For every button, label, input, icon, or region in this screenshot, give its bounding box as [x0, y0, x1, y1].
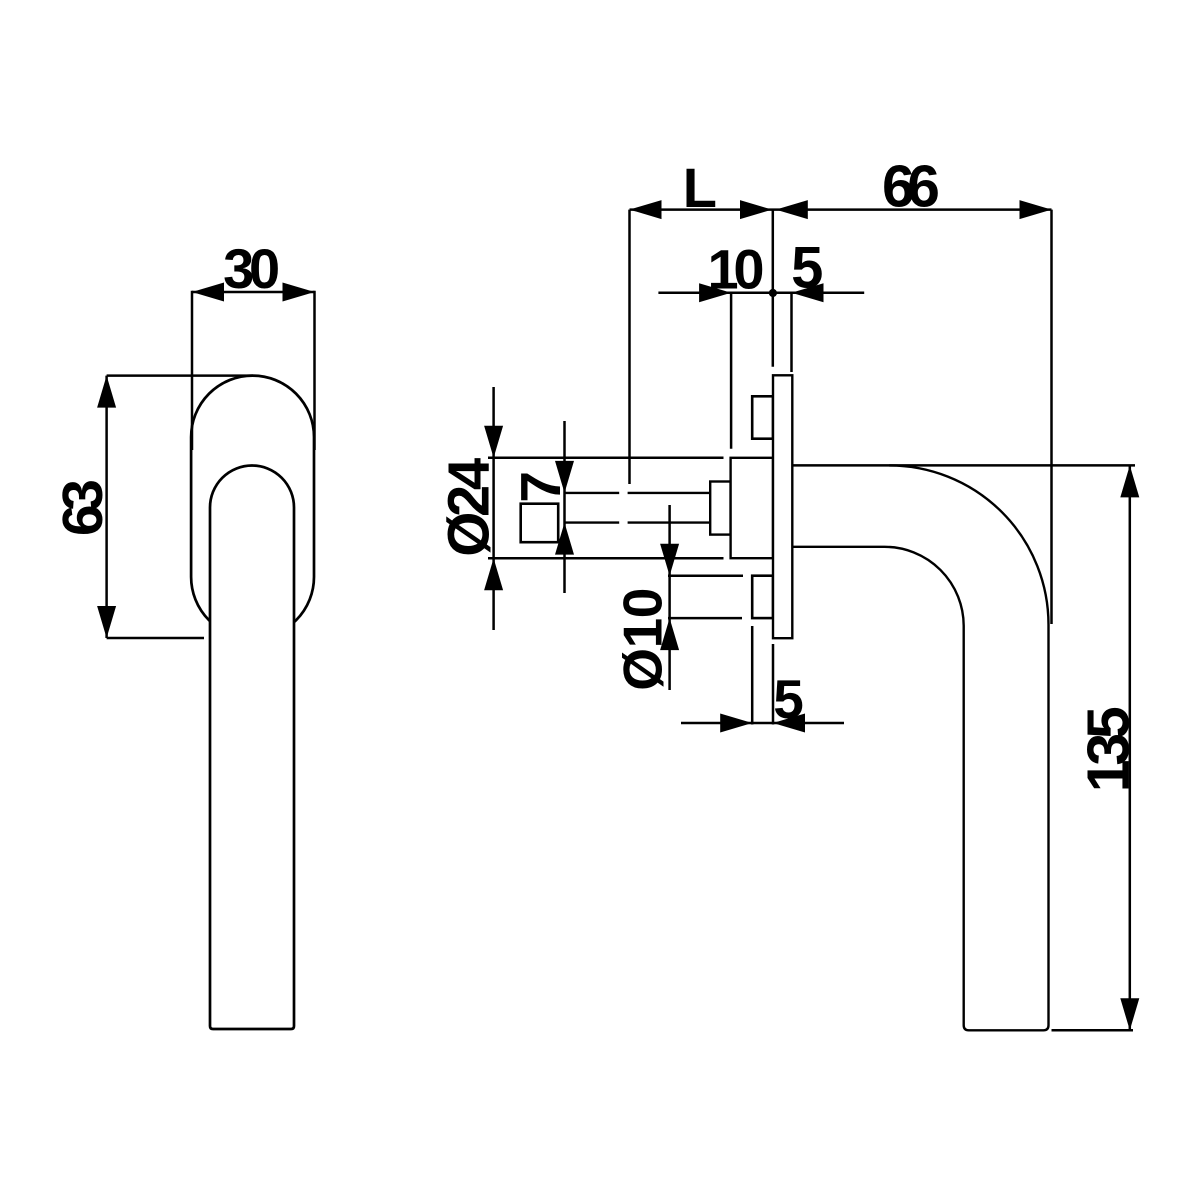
- lower fixing boss O10: [752, 576, 773, 618]
- extension line L left: [628, 210, 631, 484]
- arrowhead O10 bottom: [660, 618, 679, 650]
- extension line 135 bottom: [1052, 1029, 1134, 1032]
- extension line O10 top: [668, 575, 743, 578]
- svg-text:5: 5: [791, 236, 823, 301]
- arrowhead 5 bottom left: [720, 714, 752, 733]
- spindle bottom edge left segment: [565, 521, 619, 523]
- dimension line L and 66: [630, 208, 1052, 211]
- spindle collar: [710, 482, 730, 535]
- arrowhead 66 right: [1020, 200, 1052, 219]
- upper fixing boss O10: [752, 396, 773, 438]
- extension line O24 bottom: [488, 557, 724, 560]
- rose plate (side view): [773, 375, 792, 638]
- svg-text:135: 135: [1076, 706, 1142, 792]
- arrowhead 7 top: [555, 461, 574, 493]
- arrowhead 5 bottom right: [773, 714, 805, 733]
- arrowhead 135 up: [1120, 465, 1139, 497]
- svg-text:66: 66: [882, 153, 940, 219]
- arrowhead L right: [740, 200, 772, 219]
- grip arm top edge and 135 top extension line: [792, 464, 1135, 467]
- arrowhead 30 left: [192, 283, 224, 302]
- svg-text:Ø24: Ø24: [437, 458, 502, 557]
- dimension line 30: [192, 291, 315, 294]
- svg-text:10: 10: [708, 237, 765, 300]
- spindle top edge left segment: [565, 492, 619, 494]
- extension line 63 top: [107, 374, 253, 377]
- dimension line 5 bottom: [681, 722, 844, 725]
- arrowhead 66 left: [776, 200, 808, 219]
- extension line 5 bottom left: [751, 626, 754, 725]
- dimension line 63: [105, 376, 108, 638]
- extension line O10 bottom: [668, 617, 742, 620]
- dimension line 7: [563, 421, 566, 593]
- arrowhead 10: [699, 283, 731, 302]
- rosette (front view stadium outline): [191, 376, 314, 639]
- svg-text:7: 7: [509, 471, 573, 503]
- neck boss O24: [731, 458, 773, 558]
- arrowhead 30 right: [283, 283, 315, 302]
- arrowhead 135 down: [1120, 998, 1139, 1030]
- extension line 10 at neck left face: [730, 293, 733, 449]
- extension line 5 at plate right face: [790, 293, 793, 372]
- extension line 30 right: [313, 291, 316, 450]
- grip outline (side view): [792, 465, 1048, 1030]
- arrowhead O24 top: [484, 426, 503, 458]
- dimension line 10 and 5: [658, 292, 864, 295]
- extension line O24 top: [488, 457, 724, 460]
- svg-text:L: L: [683, 156, 717, 219]
- arrowhead L left: [630, 200, 662, 219]
- svg-text:Ø10: Ø10: [612, 588, 674, 691]
- arrowhead O24 bottom: [484, 558, 503, 590]
- svg-text:30: 30: [223, 237, 280, 300]
- arrowhead 63 down: [97, 606, 116, 638]
- extension line 5 bottom right: [772, 644, 775, 725]
- dimension line O24: [492, 387, 495, 630]
- arrowhead 63 up: [97, 376, 116, 408]
- arrowhead 5 top: [792, 283, 824, 302]
- arrowhead O10 top: [660, 544, 679, 576]
- extension line 30 left: [191, 291, 194, 450]
- extension line 66 right: [1050, 210, 1053, 624]
- handle grip (front view): [210, 466, 294, 1030]
- spindle bottom edge right segment: [628, 521, 711, 523]
- spindle top edge right segment: [628, 492, 711, 494]
- svg-text:63: 63: [51, 479, 115, 536]
- arrowhead 7 bottom: [555, 523, 574, 555]
- dimension line 135: [1129, 465, 1132, 1030]
- spindle square end: [521, 504, 559, 543]
- extension line L/66 shared at plate face: [772, 210, 775, 367]
- dot terminator at 10/5 junction: [769, 289, 777, 297]
- svg-text:5: 5: [773, 668, 804, 730]
- dimension line O10: [668, 505, 671, 690]
- extension line 63 bottom: [107, 637, 204, 640]
